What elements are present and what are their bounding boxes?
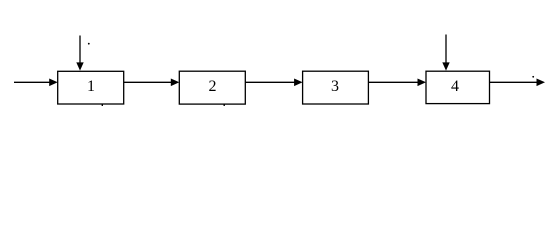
block 1 [58, 71, 124, 104]
arrowhead into block 2 [171, 79, 180, 87]
svg-text:2: 2 [209, 78, 217, 95]
output wire [490, 81, 538, 83]
wire block2 to block3 [245, 81, 295, 83]
wire block1 to block2 [124, 81, 172, 83]
vertical arrowhead into block 4 [442, 62, 449, 70]
block 2 [179, 71, 245, 104]
block 3 [303, 71, 369, 104]
input arrowhead [49, 79, 58, 87]
dot near vertical arrow of block 1 [88, 43, 90, 45]
output arrowhead [537, 79, 546, 87]
vertical input wire into block 1 [79, 36, 81, 64]
tick below block 1 [101, 104, 103, 106]
svg-text:4: 4 [451, 78, 459, 95]
wire block3 to block4 [368, 81, 418, 83]
svg-text:3: 3 [331, 78, 339, 95]
svg-text:1: 1 [87, 78, 95, 95]
arrowhead into block 3 [294, 79, 303, 87]
input wire [14, 81, 51, 83]
dot near output arrowhead [532, 76, 534, 78]
vertical input wire into block 4 [445, 35, 447, 64]
tick below block 2 [223, 104, 225, 106]
vertical arrowhead into block 1 [76, 62, 83, 70]
arrowhead into block 4 [418, 79, 427, 87]
block 4 [426, 71, 490, 103]
